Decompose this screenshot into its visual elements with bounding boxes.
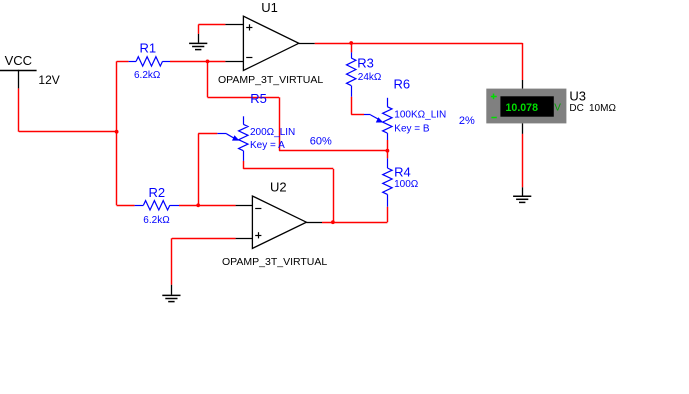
wire R5 bottom drop <box>333 169 335 222</box>
label R4 <box>394 165 411 180</box>
wire U1 plus input <box>198 24 225 26</box>
value 12V <box>38 73 59 87</box>
wire meter bottom <box>522 134 524 187</box>
svg-text:Key = B: Key = B <box>394 123 430 134</box>
resistor R2 <box>135 201 179 210</box>
label U1 <box>261 0 278 15</box>
svg-text:U3: U3 <box>569 89 586 104</box>
svg-text:6.2kΩ: 6.2kΩ <box>134 70 161 81</box>
resistor R3 <box>347 52 356 96</box>
wire left rail vertical <box>116 61 118 205</box>
wire R5 bottom <box>243 161 245 169</box>
svg-text:R3: R3 <box>357 55 374 70</box>
wire U2 output <box>322 222 387 224</box>
svg-text:R4: R4 <box>394 165 411 180</box>
power VCC symbol <box>0 70 37 89</box>
svg-text:60%: 60% <box>310 135 332 147</box>
label R3 <box>357 55 374 70</box>
multimeter U3 <box>486 80 566 134</box>
wire U1 plus to ground <box>198 25 200 34</box>
svg-text:100KΩ_LIN: 100KΩ_LIN <box>394 109 446 120</box>
svg-text:OPAMP_3T_VIRTUAL: OPAMP_3T_VIRTUAL <box>222 256 327 268</box>
svg-text:VCC: VCC <box>5 53 32 68</box>
wire U1 output <box>315 43 523 45</box>
svg-text:Key = A: Key = A <box>250 140 285 151</box>
op-amp U2 <box>236 196 322 248</box>
resistor R4 <box>383 158 392 206</box>
label U3 <box>569 89 586 104</box>
wire U2 plus input <box>172 238 236 240</box>
svg-text:24kΩ: 24kΩ <box>358 72 382 83</box>
wire VCC stem <box>18 88 20 131</box>
wire R5 bottom horizontal <box>243 168 333 170</box>
svg-text:U1: U1 <box>261 0 278 15</box>
svg-text:2%: 2% <box>459 115 475 127</box>
op-amp U1 <box>225 16 314 70</box>
svg-text:10MΩ: 10MΩ <box>589 103 616 114</box>
wire feedback horizontal 2 <box>279 150 387 152</box>
value U2 OPAMP_3T_VIRTUAL <box>222 256 327 268</box>
junction node A <box>206 60 210 64</box>
label R2 <box>149 185 166 200</box>
value R5 200Ω_LIN <box>250 127 295 138</box>
ground U2 <box>162 285 180 302</box>
value R6 100KΩ_LIN <box>394 109 446 120</box>
potentiometer R6 <box>364 98 392 140</box>
svg-text:R5: R5 <box>250 91 267 106</box>
wire R5 wiper <box>198 133 217 135</box>
junction U2 output <box>331 220 335 224</box>
junction output R3 <box>349 41 353 45</box>
potentiometer R5 <box>217 116 248 161</box>
wire R4 bottom <box>387 207 389 222</box>
svg-text:200Ω_LIN: 200Ω_LIN <box>250 127 295 138</box>
svg-text:U2: U2 <box>270 179 287 194</box>
svg-text:10.078: 10.078 <box>506 102 539 114</box>
wire feedback vertical <box>279 97 281 150</box>
wire wiper drop <box>198 134 200 206</box>
label R5 <box>250 91 267 106</box>
junction rail <box>115 130 119 134</box>
wire R4 top <box>387 151 389 159</box>
svg-text:V: V <box>554 102 561 113</box>
svg-text:OPAMP_3T_VIRTUAL: OPAMP_3T_VIRTUAL <box>218 74 323 86</box>
label R6 <box>394 76 411 91</box>
svg-text:R1: R1 <box>140 41 157 56</box>
value R5 Key = A <box>250 140 285 151</box>
wire rail to R2 <box>117 205 135 207</box>
wire R2 to U2 minus <box>179 205 236 207</box>
svg-text:R2: R2 <box>149 185 166 200</box>
value R2 6.2kΩ <box>143 215 170 226</box>
ground U1 <box>189 34 207 50</box>
wire rail to R1 <box>117 61 129 63</box>
value R1 6.2kΩ <box>134 70 161 81</box>
label R1 <box>140 41 157 56</box>
junction node C <box>196 203 200 207</box>
wire R6 bottom <box>387 140 389 151</box>
svg-text:100Ω: 100Ω <box>394 179 419 190</box>
value U1 OPAMP_3T_VIRTUAL <box>218 74 323 86</box>
label U2 <box>270 179 287 194</box>
svg-text:DC: DC <box>569 103 583 114</box>
svg-text:R6: R6 <box>394 76 411 91</box>
resistor R1 <box>129 57 170 66</box>
wire R3 bottom <box>351 97 353 115</box>
svg-text:12V: 12V <box>38 73 59 87</box>
wire R3 to R6 wiper <box>351 114 364 116</box>
wire meter drop <box>522 43 524 80</box>
value R4 100Ω <box>394 179 419 190</box>
value R6 percent <box>459 115 475 127</box>
label VCC <box>5 53 32 68</box>
value R3 24kΩ <box>358 72 382 83</box>
wire feedback horizontal 1 <box>208 97 280 99</box>
value R5 percent <box>310 135 332 147</box>
wire R3 top <box>351 43 353 52</box>
svg-text:6.2kΩ: 6.2kΩ <box>143 215 170 226</box>
wire R1 to U1 minus <box>170 61 225 63</box>
wire U2 plus to ground <box>171 238 173 284</box>
wire node A down <box>207 61 209 97</box>
wire VCC horizontal <box>19 131 117 133</box>
value U3 DC 10MΩ <box>569 103 616 114</box>
ground U3 <box>513 187 531 202</box>
junction node B <box>386 149 390 153</box>
value R6 Key = B <box>394 123 430 134</box>
